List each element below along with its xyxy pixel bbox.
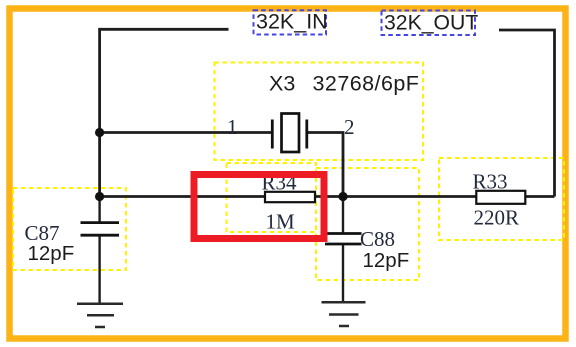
highlight box X3 [215, 63, 424, 161]
svg-text:32K_IN: 32K_IN [256, 10, 328, 34]
node junction right [338, 192, 347, 201]
svg-text:32K_OUT: 32K_OUT [384, 12, 478, 35]
label X3 value [269, 71, 419, 95]
wire top left from 32K_IN [100, 29, 229, 197]
wire main horizontal net [100, 195, 555, 198]
ground under C88 [322, 302, 366, 326]
highlight box R33 [439, 158, 564, 240]
svg-text:R33: R33 [473, 170, 508, 194]
node junction left upper [95, 128, 104, 137]
highlight box C87 [13, 188, 126, 270]
node junction left lower [95, 192, 104, 201]
wire C88 stem [342, 197, 344, 234]
svg-text:2: 2 [344, 115, 355, 139]
highlight red box around R34 [194, 175, 324, 239]
wire C87 stem [98, 197, 100, 223]
svg-text:12pF: 12pF [28, 242, 75, 265]
net 32K_OUT [382, 11, 479, 36]
capacitor C87 [81, 223, 120, 236]
ground under C87 [77, 304, 123, 327]
wire to crystal pin 1 [100, 131, 272, 134]
highlight box C88 [316, 168, 419, 280]
resistor R33 [476, 191, 525, 204]
svg-text:1: 1 [227, 115, 238, 139]
svg-text:1M: 1M [266, 210, 296, 234]
capacitor C88 [325, 234, 362, 245]
highlight box R34 [227, 163, 317, 232]
svg-text:X3: X3 [269, 71, 295, 95]
svg-text:32768/6pF: 32768/6pF [313, 71, 420, 95]
wire right to 32K_OUT [499, 30, 555, 197]
svg-text:220R: 220R [474, 206, 520, 230]
net 32K_IN [254, 10, 328, 35]
resistor R34 [265, 192, 315, 202]
wire from crystal pin 2 [307, 133, 343, 197]
svg-text:12pF: 12pF [363, 249, 410, 272]
crystal X3 [272, 114, 307, 153]
svg-text:C88: C88 [360, 227, 395, 251]
